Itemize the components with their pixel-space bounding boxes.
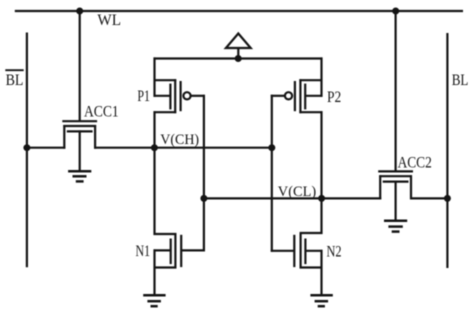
svg-text:V(CH): V(CH) (160, 132, 199, 148)
label BL-bar (5, 70, 23, 89)
wire N1 drain from V(CH) (153, 147, 155, 235)
wire P2 drain to V(CL) (320, 111, 322, 199)
ground under ACC2 (bulk) (384, 221, 407, 232)
junction dot WL / ACC1 gate (76, 8, 83, 15)
ground under ACC1 (bulk) (68, 171, 91, 181)
svg-text:N2: N2 (327, 242, 342, 261)
ground under N1 (143, 295, 165, 306)
wire node V(CL) right segment (ACC2 to BL) (410, 197, 448, 199)
wire node V(CH) left segment (BL-bar to ACC1) (26, 147, 65, 149)
wire BL-bar bit line (left rail) (26, 33, 28, 268)
svg-text:ACC2: ACC2 (398, 153, 432, 172)
transistor ACC2 (access NMOS, gate on top) (378, 171, 413, 221)
svg-text:BL: BL (452, 70, 469, 89)
transistor ACC1 (access NMOS, gate on top) (62, 121, 97, 171)
junction dot V(CH) / cross-coupling wire B (268, 144, 275, 151)
junction dot BL / ACC2 drain (444, 195, 451, 202)
svg-text:BL: BL (6, 70, 24, 89)
wire N2 source to ground (320, 250, 322, 296)
junction dot BL-bar / ACC1 source (23, 144, 30, 151)
svg-text:P2: P2 (327, 87, 341, 106)
wire WL (word line) (15, 10, 463, 12)
junction dot V(CH) / inverter-1 drains (151, 144, 158, 151)
svg-text:V(CL): V(CL) (278, 184, 316, 200)
wire ACC2 gate from WL (395, 10, 397, 172)
transistor P1 (PMOS pull-up, gate on right with bubble) (154, 79, 205, 113)
wire VDD rail (154, 57, 323, 59)
transistor P2 (PMOS pull-up, gate on left with bubble) (271, 79, 323, 113)
wire P1 drain to V(CH) (153, 111, 155, 149)
wire N1 source to ground (153, 249, 155, 296)
svg-text:P1: P1 (137, 86, 150, 105)
junction dot V(CL) / cross-coupling wire A (200, 195, 207, 202)
wire BL bit line (right rail) (446, 33, 448, 268)
wire cross-coupling A (P1,N1 gates to V(CL)) (203, 95, 205, 252)
ground under N2 (310, 295, 332, 306)
wire N2 drain from V(CL) (320, 197, 322, 234)
power supply VDD symbol (triangle) (226, 34, 251, 59)
wire P1 source rail from VDD (153, 57, 155, 96)
svg-text:WL: WL (97, 10, 121, 29)
svg-text:ACC1: ACC1 (84, 101, 119, 120)
junction dot V(CL) / inverter-2 drains (318, 195, 325, 202)
wire node V(CH) right segment (ACC1 to cross-coupling wire B) (94, 147, 273, 149)
wire P2 source rail from VDD (320, 57, 322, 96)
junction dot WL / ACC2 gate (392, 8, 399, 15)
transistor N2 (NMOS pull-down, gate on left) (271, 233, 323, 268)
svg-text:N1: N1 (136, 241, 151, 260)
wire node V(CL) left segment (wire A to ACC2) (203, 197, 381, 199)
junction dot VDD rail (235, 55, 242, 62)
wire cross-coupling B (P2,N2 gates to V(CH)) (271, 95, 273, 252)
transistor N1 (NMOS pull-down, gate on right) (154, 233, 205, 268)
wire ACC1 gate from WL (79, 10, 81, 122)
